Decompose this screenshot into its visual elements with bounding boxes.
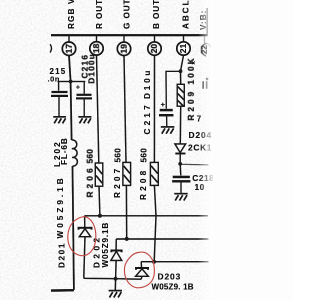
- vertical line at right end of bus: [206, 8, 208, 36]
- capacitor C216 plates: [77, 94, 92, 96]
- svg-text:D10u: D10u: [143, 68, 152, 99]
- svg-text:G OUT: G OUT: [123, 0, 132, 29]
- diode D204 cathode bar: [175, 153, 185, 155]
- red circle around D203: [124, 252, 154, 288]
- wire junction down to R209: [180, 71, 182, 84]
- svg-text:560: 560: [114, 148, 123, 163]
- ground for C216: [78, 117, 91, 124]
- capacitor C218 plates: [173, 176, 190, 178]
- thick chassis line bottom left: [51, 289, 74, 292]
- capacitor C218 bottom stub: [180, 183, 182, 194]
- pin 20 circle: [148, 42, 161, 55]
- wire ABCL branch right faded: [180, 163, 208, 166]
- red circle around D201: [68, 217, 96, 256]
- junction node rail1 col18: [98, 214, 102, 218]
- diode D204 triangle: [175, 144, 186, 153]
- wire R209 to D204: [179, 106, 181, 144]
- svg-text:D203: D203: [158, 272, 182, 282]
- diode D203 stub from rail3: [140, 262, 142, 268]
- wire pin17 column down: [69, 55, 72, 140]
- rail 2 G OUT: [116, 238, 208, 240]
- diode D202 stub from rail2: [115, 239, 117, 250]
- rail 3 B OUT: [141, 261, 208, 263]
- resistor R208 body: [150, 162, 158, 185]
- svg-text:560: 560: [86, 149, 95, 164]
- pin 21 circle: [177, 42, 190, 55]
- inductor L202 coil: [72, 140, 78, 166]
- wire D203 anode to bottom wire: [140, 276, 143, 279]
- svg-text:R209: R209: [187, 89, 196, 121]
- svg-text:W05Z9.1B: W05Z9.1B: [56, 175, 65, 238]
- ground for C217: [161, 127, 174, 134]
- wire D201 anode down and right along bottom: [84, 237, 141, 280]
- resistor R209 body: [177, 84, 184, 106]
- pin 21 stub: [183, 36, 185, 42]
- ground stub for D202: [114, 279, 116, 290]
- pin 19 stub: [123, 36, 125, 42]
- junction node bottom D202: [114, 277, 118, 281]
- capacitor C216 top stub: [83, 82, 85, 94]
- svg-text:R OUT: R OUT: [95, 0, 104, 29]
- svg-text:560: 560: [140, 148, 149, 163]
- svg-text:ABCL: ABCL: [182, 0, 191, 29]
- junction node rail3 col20: [152, 260, 156, 264]
- diode D201 stub from rail1: [84, 216, 86, 227]
- capacitor header wire at pin17: [58, 81, 86, 83]
- svg-text:R206: R206: [86, 165, 95, 197]
- wire pin18 column down to rail1: [97, 55, 99, 163]
- junction node D204 out: [178, 162, 182, 166]
- capacitor C216 bottom stub: [83, 99, 85, 116]
- svg-text:19: 19: [119, 44, 129, 54]
- svg-text:W05Z9. 1B: W05Z9. 1B: [152, 283, 194, 292]
- wire pin20 column down to rail3: [153, 55, 155, 162]
- svg-text:+: +: [161, 100, 166, 109]
- ground for D202: [109, 291, 122, 298]
- svg-text:R207: R207: [113, 166, 122, 198]
- svg-text:.0n: .0n: [48, 75, 60, 84]
- junction node rail2 col19: [125, 237, 129, 241]
- ground for C218: [174, 194, 187, 201]
- svg-text:D201: D201: [58, 242, 67, 268]
- wire branch to C217: [166, 71, 181, 108]
- svg-text:RGB V: RGB V: [67, 0, 76, 29]
- fade overlay right edge: [198, 0, 215, 300]
- svg-text:C217: C217: [143, 102, 152, 134]
- wire D202 anode down: [115, 260, 118, 278]
- diode D201 zener cathode bar: [79, 228, 92, 230]
- svg-text:W05Z9.1B: W05Z9.1B: [101, 222, 110, 268]
- junction node at pin17 caps: [69, 80, 73, 84]
- pin 22 circle faded: [201, 43, 206, 56]
- capacitor C215 top stub: [58, 82, 60, 91]
- wire junction down to C218: [179, 164, 182, 175]
- pin 17 circle: [62, 42, 75, 55]
- diode D203 zener cathode bar: [136, 268, 148, 270]
- pin 16 partial circle arc: [50, 44, 51, 52]
- rail 1 R OUT: [85, 215, 209, 217]
- resistor R206 body: [95, 163, 103, 186]
- pin 17 stub: [68, 36, 70, 42]
- pin 22 stub faded: [204, 36, 206, 43]
- pin 19 circle: [117, 42, 130, 55]
- svg-text:FL-6B: FL-6B: [60, 137, 69, 165]
- svg-text:18: 18: [91, 43, 101, 53]
- junction node pin21 branch: [179, 69, 183, 73]
- svg-text:D100u: D100u: [88, 53, 97, 84]
- diode D203 triangle: [136, 269, 149, 277]
- wire pin19 column down to rail2: [124, 56, 126, 163]
- diode D202 zener cathode bar: [111, 251, 121, 253]
- IC edge bus line: [51, 34, 208, 36]
- svg-text:+: +: [76, 83, 81, 92]
- svg-text:B OUT: B OUT: [152, 0, 161, 29]
- capacitor C217 plates: [160, 109, 173, 111]
- svg-text:×: ×: [192, 60, 196, 67]
- pin 18 stub: [96, 36, 98, 42]
- svg-text:17: 17: [64, 44, 74, 54]
- svg-text:20: 20: [149, 44, 159, 54]
- diode D201 triangle: [79, 229, 90, 237]
- capacitor C217 bottom stub: [166, 116, 168, 126]
- ground for C215: [53, 117, 66, 124]
- svg-text:21: 21: [178, 44, 188, 54]
- wire pin21 down to junction: [181, 55, 184, 71]
- pin 18 circle: [90, 42, 103, 55]
- wire D204 to junction: [179, 154, 181, 164]
- capacitor C215 plates: [52, 91, 68, 93]
- wire L202 down to bottom corner: [73, 166, 74, 290]
- diode D202 triangle: [111, 251, 122, 260]
- resistor R207 body: [123, 162, 131, 185]
- pin 20 stub: [154, 36, 156, 42]
- svg-text:R208: R208: [139, 168, 148, 200]
- mark II* near right edge: [202, 81, 204, 88]
- capacitor C215 bottom stub: [58, 97, 60, 117]
